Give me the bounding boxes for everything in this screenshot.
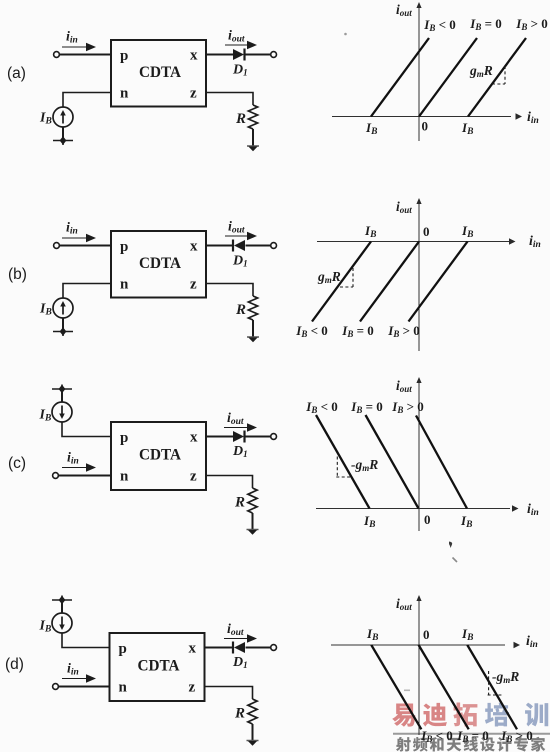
svg-text:IB = 0: IB = 0 xyxy=(469,16,502,32)
wire ground to source (c) xyxy=(61,389,63,402)
current source I_B (a) xyxy=(53,107,73,127)
ground under source (b) xyxy=(53,331,73,333)
svg-text:IB > 0: IB > 0 xyxy=(387,323,420,339)
graph b transfer line IB=0 xyxy=(360,242,419,322)
svg-text:R: R xyxy=(235,111,246,127)
resistor R (b) xyxy=(248,296,257,320)
diode D1 (c) xyxy=(233,431,244,442)
svg-text:IB: IB xyxy=(460,513,472,530)
svg-text:z: z xyxy=(190,469,197,485)
current arrow i_out (d) xyxy=(224,638,250,640)
wire x to diode (d) xyxy=(205,647,234,649)
output terminal (d) xyxy=(271,645,277,651)
svg-text:iout: iout xyxy=(228,29,245,45)
svg-text:R: R xyxy=(234,495,245,511)
wire n to source (b) xyxy=(63,284,111,299)
graph b slope indicator dashes xyxy=(352,268,354,287)
diode D1 (a) xyxy=(233,49,244,60)
svg-text:n: n xyxy=(120,277,129,293)
current arrow i_in (b) xyxy=(62,237,89,239)
svg-text:n: n xyxy=(120,469,129,485)
svg-text:IB = 0: IB = 0 xyxy=(341,323,374,339)
wire input to n (c) xyxy=(58,475,111,477)
current arrow i_out (c) xyxy=(224,427,250,429)
graph a transfer line IB<0 xyxy=(371,38,429,117)
graph c transfer line IB<0 xyxy=(316,415,370,509)
svg-text:iin: iin xyxy=(527,110,539,126)
svg-text:R: R xyxy=(234,706,245,722)
graph c transfer line IB>0 xyxy=(416,416,467,509)
svg-text:0: 0 xyxy=(423,224,430,239)
ground under resistor (c) xyxy=(247,529,259,531)
ground above source (d) xyxy=(52,599,72,601)
svg-text:CDTA: CDTA xyxy=(139,255,181,272)
ground above source (c) xyxy=(52,388,72,390)
graph c vertical axis i_out xyxy=(418,382,420,531)
svg-text:IB: IB xyxy=(364,223,376,240)
graph a vertical axis i_out xyxy=(418,7,420,141)
svg-text:iin: iin xyxy=(527,502,539,518)
current arrow i_in (a) xyxy=(62,46,89,48)
svg-text:IB < 0: IB < 0 xyxy=(305,399,338,415)
svg-text:IB < 0: IB < 0 xyxy=(420,728,453,744)
resistor R (a) xyxy=(248,105,257,129)
svg-text:IB: IB xyxy=(39,408,52,424)
svg-text:-gmR: -gmR xyxy=(492,669,519,685)
graph b vertical axis i_out xyxy=(418,203,420,351)
wire diode to output (b) xyxy=(246,245,272,247)
graph d vertical axis i_out xyxy=(418,600,420,735)
svg-text:0: 0 xyxy=(424,512,431,527)
CDTA block (a) xyxy=(111,40,206,107)
svg-text:p: p xyxy=(120,430,128,446)
svg-text:IB: IB xyxy=(39,111,52,127)
svg-text:gmR: gmR xyxy=(317,269,341,285)
svg-text:D1: D1 xyxy=(232,655,248,670)
current arrow i_in (c) xyxy=(62,467,89,469)
svg-text:D1: D1 xyxy=(232,254,248,269)
wire resistor to ground (c) xyxy=(252,513,254,530)
graph c horizontal axis i_in xyxy=(316,508,510,510)
svg-text:iin: iin xyxy=(66,30,78,46)
wire z to resistor (b) xyxy=(206,284,253,297)
wire z to resistor (a) xyxy=(206,93,253,106)
diode D1 (b) xyxy=(232,240,234,252)
wire resistor to ground (b) xyxy=(252,320,254,337)
wire ground to source (d) xyxy=(61,600,63,613)
wire diode to output (a) xyxy=(246,54,272,56)
wire source to ground (a) xyxy=(62,127,64,140)
svg-text:iout: iout xyxy=(396,596,412,612)
svg-text:iout: iout xyxy=(396,378,412,394)
svg-text:z: z xyxy=(190,86,197,102)
svg-text:IB: IB xyxy=(366,626,378,643)
ground under resistor (d) xyxy=(247,740,259,742)
svg-text:0: 0 xyxy=(423,627,430,642)
svg-text:n: n xyxy=(119,680,128,696)
graph b transfer line IB>0 xyxy=(409,242,468,322)
svg-text:IB < 0: IB < 0 xyxy=(295,323,328,339)
wire resistor to ground (d) xyxy=(252,724,254,741)
wire source to ground (b) xyxy=(62,318,64,331)
output terminal (c) xyxy=(271,434,277,440)
input terminal (c) xyxy=(53,473,59,479)
graph a transfer line IB=0 xyxy=(419,38,477,117)
wire diode to output (c) xyxy=(246,436,272,438)
svg-text:iin: iin xyxy=(526,634,538,650)
svg-text:x: x xyxy=(190,430,198,446)
svg-text:D1: D1 xyxy=(232,63,248,78)
svg-text:iout: iout xyxy=(227,411,244,427)
svg-text:0: 0 xyxy=(422,119,429,134)
graph d horizontal axis i_in xyxy=(331,644,505,646)
svg-text:D1: D1 xyxy=(232,444,248,459)
svg-text:p: p xyxy=(120,48,128,64)
svg-text:IB: IB xyxy=(365,120,377,137)
wire resistor to ground (a) xyxy=(252,129,254,146)
svg-text:p: p xyxy=(120,239,128,255)
current source I_B (c) xyxy=(52,402,72,422)
CDTA block (b) xyxy=(111,231,206,298)
svg-text:iin: iin xyxy=(66,221,78,237)
output terminal (a) xyxy=(271,52,277,58)
graph a transfer line IB>0 xyxy=(468,38,526,117)
graph d slope indicator dashes xyxy=(488,671,490,695)
graph a horizontal axis i_in xyxy=(332,116,511,118)
ground under source (a) xyxy=(53,140,73,142)
svg-text:IB: IB xyxy=(363,513,375,530)
wire z to resistor (c) xyxy=(206,476,253,489)
watermark logo text xyxy=(392,704,415,727)
scan speck near graph a xyxy=(344,33,347,36)
current arrow i_out (a) xyxy=(225,44,250,46)
svg-text:iin: iin xyxy=(67,662,79,678)
svg-text:R: R xyxy=(235,302,246,318)
svg-text:IB: IB xyxy=(461,626,473,643)
graph d transfer line IB<0 xyxy=(371,645,421,729)
scan tick below smudge xyxy=(453,558,458,563)
svg-text:z: z xyxy=(190,277,197,293)
wire source to p (c) xyxy=(62,422,111,437)
wire x to diode (b) xyxy=(206,245,233,247)
svg-text:IB > 0: IB > 0 xyxy=(391,399,424,415)
svg-text:iin: iin xyxy=(529,234,541,250)
svg-text:iout: iout xyxy=(396,2,412,18)
graph c transfer line IB=0 xyxy=(366,415,419,509)
input terminal (d) xyxy=(53,684,59,690)
graph c slope indicator dashes xyxy=(336,457,338,478)
svg-text:-gmR: -gmR xyxy=(351,457,378,473)
current source I_B (b) xyxy=(53,298,73,318)
svg-text:n: n xyxy=(120,86,129,102)
svg-text:IB = 0: IB = 0 xyxy=(456,728,489,744)
ground under resistor (a) xyxy=(247,145,259,147)
resistor R (c) xyxy=(248,488,257,513)
wire z to resistor (d) xyxy=(205,687,253,700)
svg-text:p: p xyxy=(119,641,127,657)
svg-text:x: x xyxy=(190,239,198,255)
svg-text:iout: iout xyxy=(396,199,412,215)
current arrow i_in (d) xyxy=(62,678,89,680)
svg-text:IB > 0: IB > 0 xyxy=(500,728,533,744)
current source I_B (d) xyxy=(52,613,72,633)
watermark divider line xyxy=(393,733,550,735)
graph d transfer line IB>0 xyxy=(467,645,517,729)
resistor R (d) xyxy=(248,699,257,724)
svg-text:x: x xyxy=(189,641,197,657)
wire input to p (b) xyxy=(59,245,111,247)
graph b transfer line IB<0 xyxy=(312,242,371,322)
input terminal (a) xyxy=(54,52,60,58)
svg-text:(c): (c) xyxy=(8,455,26,472)
ground under resistor (b) xyxy=(247,336,259,338)
svg-text:x: x xyxy=(190,48,198,64)
CDTA block (d) xyxy=(110,633,205,701)
svg-text:gmR: gmR xyxy=(469,63,493,79)
scan speck left of watermark xyxy=(404,690,410,692)
scan smudge between graph c and row d xyxy=(449,542,452,549)
svg-text:CDTA: CDTA xyxy=(138,658,180,675)
svg-text:IB > 0: IB > 0 xyxy=(515,16,548,32)
svg-text:IB < 0: IB < 0 xyxy=(423,17,456,33)
wire input to n (d) xyxy=(58,686,109,688)
watermark slogan text xyxy=(396,737,411,752)
svg-text:IB = 0: IB = 0 xyxy=(350,399,383,415)
svg-text:(a): (a) xyxy=(7,65,26,82)
wire input to p (a) xyxy=(59,54,111,56)
wire n to source (a) xyxy=(63,93,111,108)
svg-text:(d): (d) xyxy=(5,656,24,673)
wire source to p (d) xyxy=(62,633,110,648)
input terminal (b) xyxy=(54,243,60,249)
svg-text:iin: iin xyxy=(67,451,79,467)
svg-text:IB: IB xyxy=(39,619,52,635)
current arrow i_out (b) xyxy=(225,235,250,237)
svg-text:iout: iout xyxy=(227,622,244,638)
diode D1 (d) xyxy=(232,642,234,654)
output terminal (b) xyxy=(271,243,277,249)
svg-text:IB: IB xyxy=(461,120,473,137)
svg-text:IB: IB xyxy=(461,223,473,240)
svg-text:IB: IB xyxy=(39,302,52,318)
svg-text:CDTA: CDTA xyxy=(139,64,181,81)
svg-text:(b): (b) xyxy=(8,266,27,283)
wire x to diode (c) xyxy=(206,436,233,438)
graph b horizontal axis i_in xyxy=(317,241,509,243)
wire diode to output (d) xyxy=(246,647,272,649)
wire x to diode (a) xyxy=(206,54,233,56)
graph a slope indicator dashes xyxy=(504,66,506,84)
svg-text:iout: iout xyxy=(228,220,245,236)
svg-text:CDTA: CDTA xyxy=(139,447,181,464)
svg-text:z: z xyxy=(189,680,196,696)
CDTA block (c) xyxy=(111,422,206,490)
graph d transfer line IB=0 xyxy=(419,645,469,729)
